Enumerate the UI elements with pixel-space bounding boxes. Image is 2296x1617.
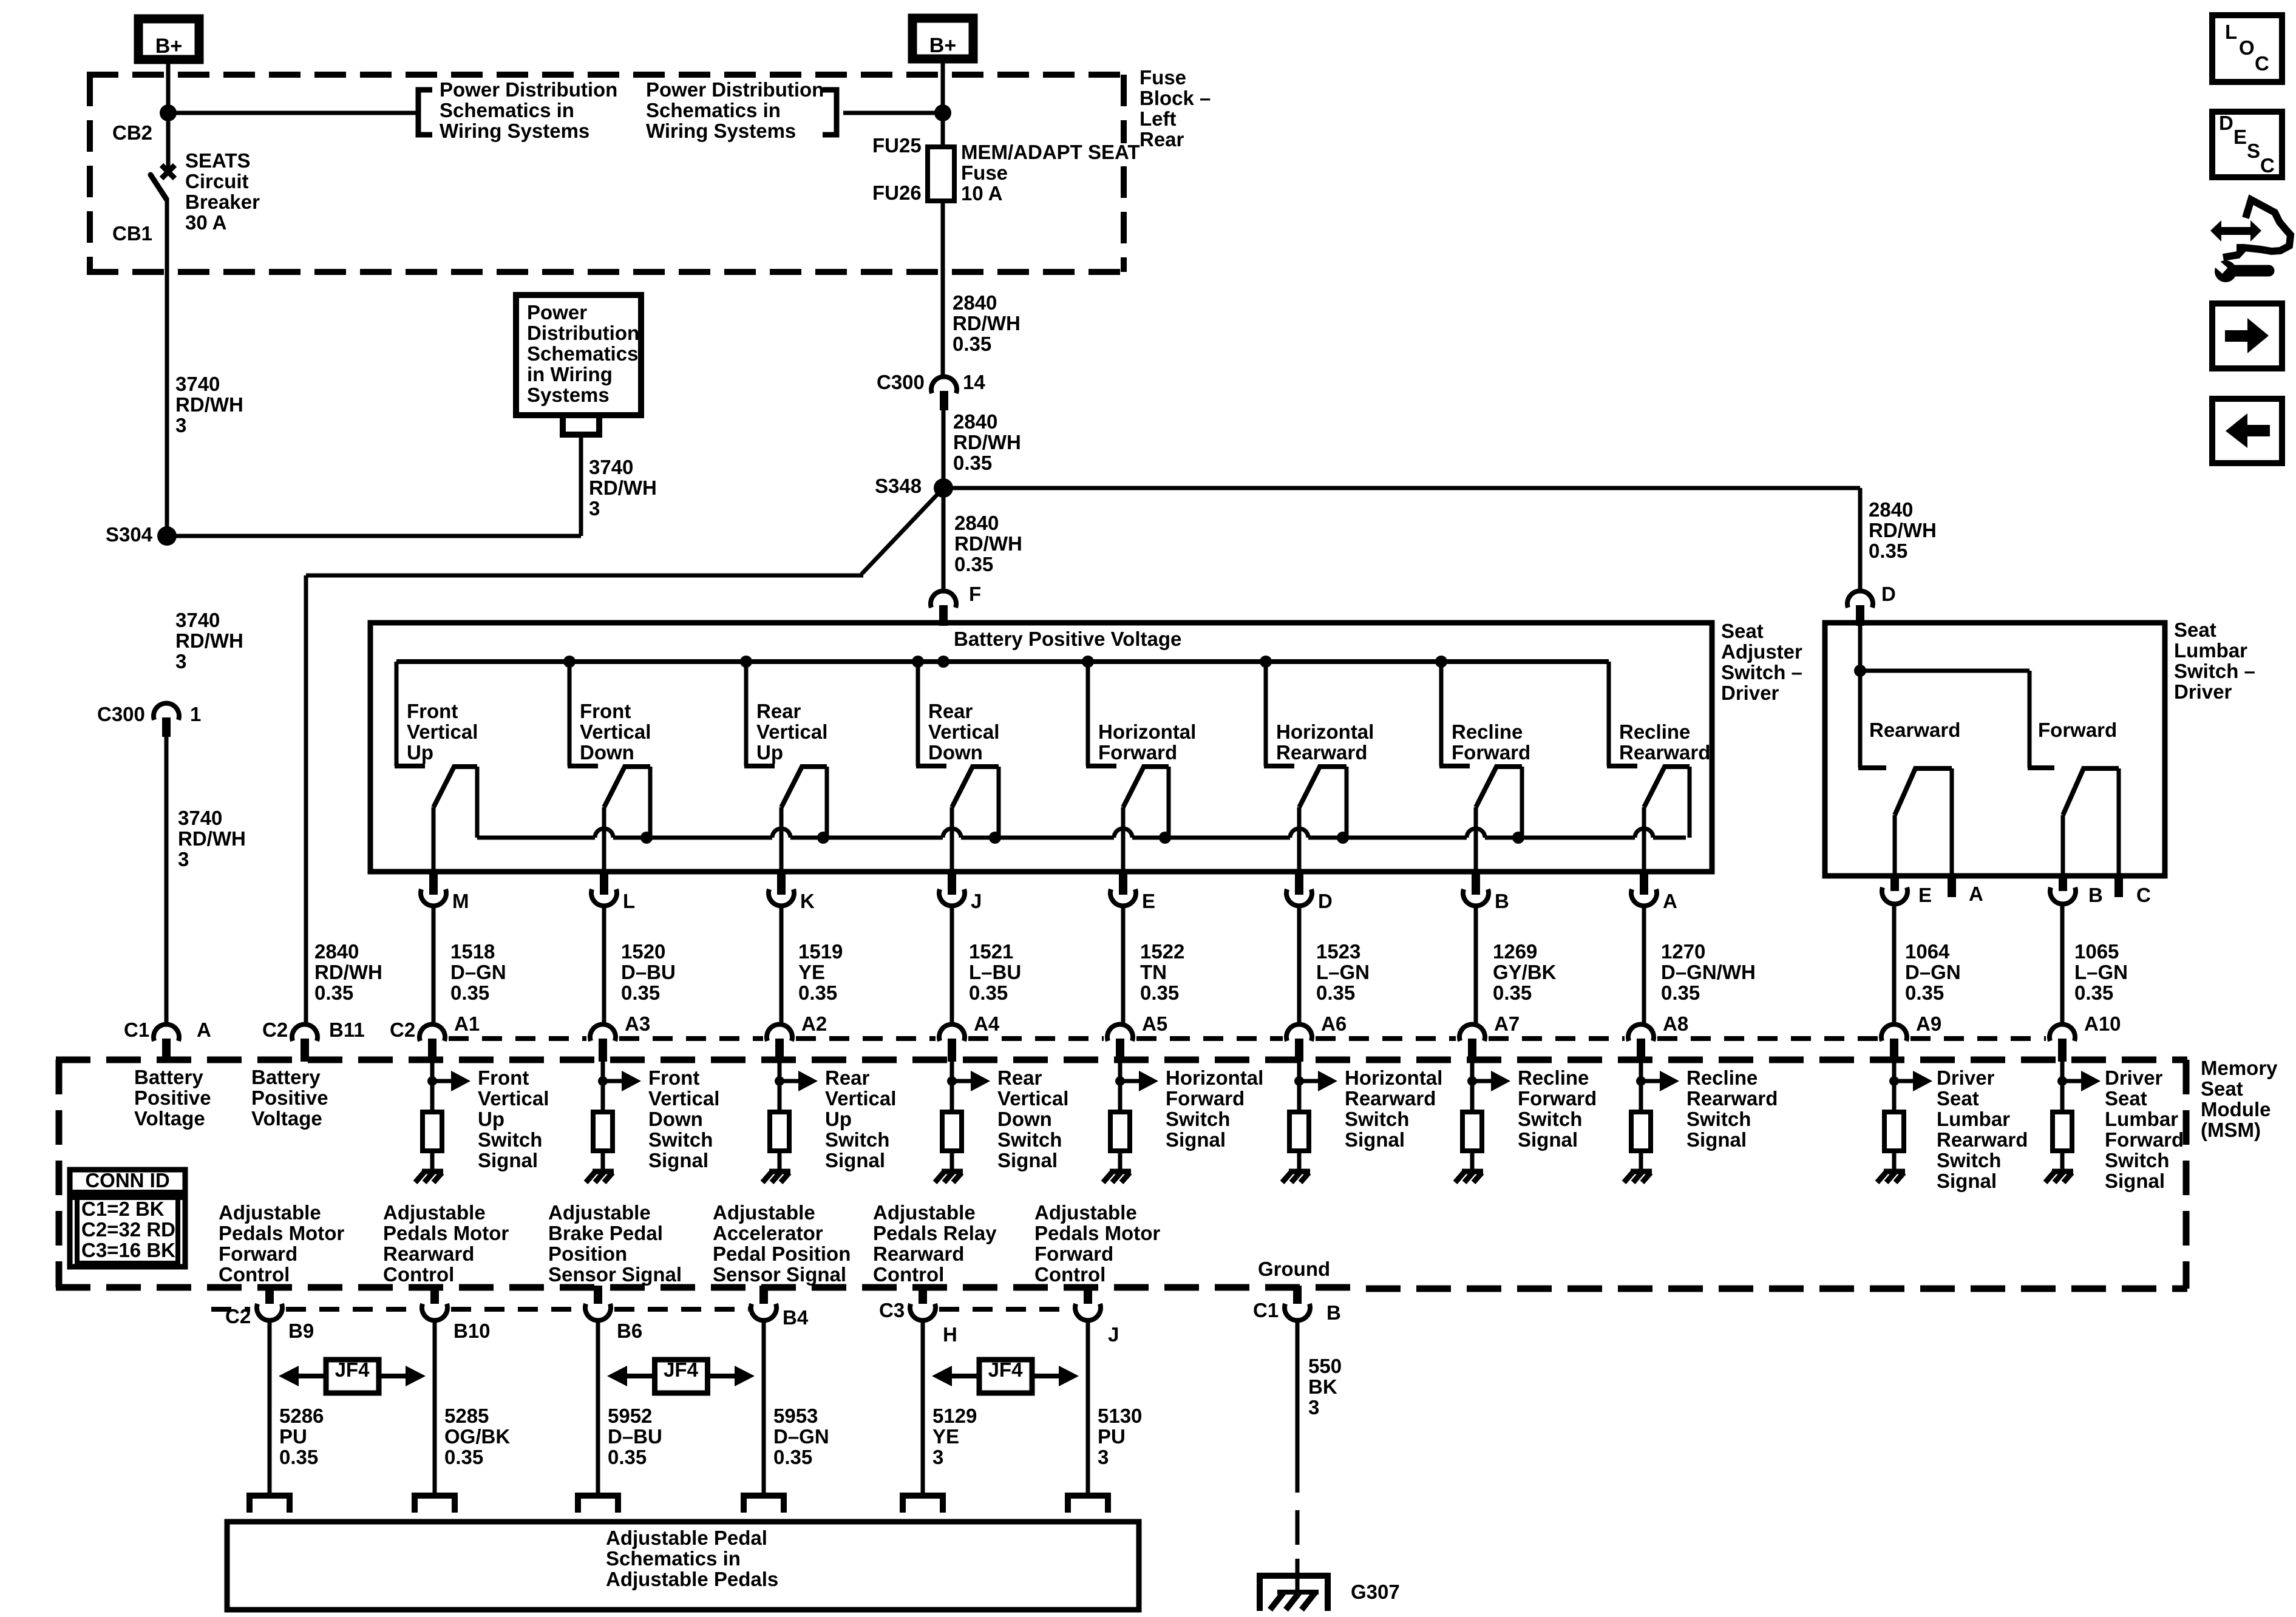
splice S348 [934,478,953,498]
svg-text:Rearward: Rearward [873,1242,964,1265]
svg-text:0.35: 0.35 [1905,981,1944,1004]
svg-text:Forward: Forward [2105,1128,2184,1151]
svg-text:0.35: 0.35 [1869,540,1907,562]
svg-text:Systems: Systems [527,384,610,406]
power distribution reference box terminal [563,415,599,435]
svg-text:Up: Up [478,1108,504,1130]
svg-text:0.35: 0.35 [608,1446,647,1468]
icon back arrow box [2212,399,2282,463]
in-line connector JF4 box [326,1360,379,1393]
svg-text:Adjuster: Adjuster [1721,640,1802,663]
resistor (pull) Recline Forward [1462,1112,1482,1151]
svg-text:Front: Front [580,700,631,722]
svg-text:A8: A8 [1663,1012,1688,1035]
svg-text:C300: C300 [97,703,145,725]
ground (internal) [1289,1169,1310,1175]
wire ground dashed section [1296,1510,1300,1545]
wire hop over output [1290,829,1308,838]
svg-text:Forward: Forward [1166,1087,1245,1110]
node signal junction Recline Rearward Switch Signal [1636,1076,1646,1086]
connector MSM pin A5 [1107,1025,1133,1041]
wire B+ to CB2 junction [166,64,171,113]
svg-text:L–GN: L–GN [2074,961,2128,983]
svg-text:Voltage: Voltage [134,1107,205,1130]
wire S348 diagonal to B11 branch [861,488,943,574]
svg-text:Memory: Memory [2201,1057,2278,1079]
svg-text:Signal: Signal [478,1149,538,1171]
svg-text:5953: 5953 [773,1405,818,1427]
svg-text:RD/WH: RD/WH [953,431,1021,453]
svg-text:B6: B6 [617,1320,642,1342]
svg-text:Battery: Battery [134,1066,203,1088]
svg-text:Forward: Forward [219,1242,297,1265]
svg-text:Power Distribution: Power Distribution [646,78,824,101]
node power distribution branch 2 junction [934,104,951,121]
svg-text:Seat: Seat [2174,619,2216,641]
switch Front Vertical Up - lever [433,767,477,807]
svg-text:1270: 1270 [1661,940,1705,963]
terminal at adjustable pedal schematics (H) [903,1496,943,1513]
svg-text:Seat: Seat [2105,1087,2147,1110]
svg-text:Position: Position [548,1242,627,1265]
svg-text:B+: B+ [929,34,956,57]
switch Horizontal Forward - contact leg [1167,767,1171,838]
wire switch Rear Vertical Down output [950,807,954,870]
svg-text:A7: A7 [1494,1012,1520,1035]
svg-text:Horizontal: Horizontal [1345,1066,1442,1089]
svg-text:0.35: 0.35 [450,981,489,1004]
svg-text:C2: C2 [390,1019,415,1041]
connector MSM pin A4 [939,1025,965,1041]
wire CB1 down to S304 [165,198,169,536]
svg-text:Rearward: Rearward [1619,741,1710,764]
svg-text:Pedals Relay: Pedals Relay [873,1222,997,1244]
svg-text:Rear: Rear [756,700,801,722]
wire MSM input Driver Seat [2060,1062,2065,1081]
svg-text:Vertical: Vertical [928,720,999,743]
svg-text:550: 550 [1308,1355,1342,1377]
svg-text:C2=32 RD: C2=32 RD [81,1218,175,1241]
connector MSM pin B6 [594,1286,602,1309]
wire resistor to ground [1118,1151,1123,1169]
svg-text:Switch: Switch [1518,1108,1582,1130]
resistor (pull) Horizontal Rearward [1289,1112,1309,1151]
svg-text:Pedals Motor: Pedals Motor [1034,1222,1160,1244]
node signal junction Recline Forward Switch Signal [1467,1076,1477,1086]
switch Lumbar Rearward - lever [1895,768,1952,815]
svg-text:B4: B4 [783,1306,809,1329]
ground (internal) [1462,1169,1483,1175]
svg-text:30 A: 30 A [185,211,226,234]
resistor (pull) Recline Rearward [1631,1112,1651,1151]
svg-text:Lumbar: Lumbar [1937,1108,2010,1130]
connector MSM pin B9 [265,1286,274,1309]
svg-text:Forward: Forward [1518,1087,1597,1110]
node bus tap K [740,656,752,668]
svg-text:0.35: 0.35 [953,333,991,355]
svg-text:Signal: Signal [1518,1128,1578,1151]
svg-text:C3=16 BK: C3=16 BK [81,1239,175,1261]
svg-text:1064: 1064 [1905,940,1950,963]
svg-text:Sensor Signal: Sensor Signal [548,1263,682,1286]
switch Recline Forward - lever [1476,767,1522,807]
wire C300-14 to S348 [942,409,946,488]
svg-text:Ground: Ground [1258,1258,1330,1280]
wire switch Front Vertical Up output [432,807,436,870]
svg-text:5952: 5952 [608,1405,652,1427]
wire hop over output [943,829,961,838]
svg-text:RD/WH: RD/WH [175,393,243,416]
svg-text:Switch: Switch [2105,1149,2169,1171]
svg-text:Control: Control [219,1263,290,1286]
svg-text:Recline: Recline [1686,1066,1758,1089]
svg-text:B11: B11 [329,1019,365,1041]
wire MSM input Horizontal Rearward [1297,1062,1302,1081]
ground (internal) [422,1169,443,1175]
svg-text:Driver: Driver [1937,1066,1995,1089]
svg-text:Vertical: Vertical [756,720,827,743]
ground (internal) [942,1169,963,1175]
svg-text:Vertical: Vertical [580,720,651,743]
svg-text:Wiring Systems: Wiring Systems [646,120,796,142]
svg-text:Control: Control [383,1263,454,1286]
wire pin B6 to adjustable pedals [596,1321,600,1493]
ground (internal) [593,1169,614,1175]
svg-text:Up: Up [407,741,433,764]
connector pin D [1295,872,1303,895]
wire resistor to ground [1892,1151,1897,1169]
connector C300 pin 14 [931,377,957,393]
svg-text:Down: Down [580,741,634,764]
svg-text:J: J [1108,1323,1119,1346]
wire ground pin B down [1296,1321,1300,1493]
svg-text:RD/WH: RD/WH [954,532,1022,555]
svg-text:0.35: 0.35 [444,1446,483,1468]
reference bracket 2 [823,90,837,135]
resistor (pull) Driver Seat [1884,1112,1904,1151]
wire B+2 down to fuse [941,62,945,147]
switch Lumbar Forward - lever [2063,768,2119,815]
JF4 arrow left [951,1374,979,1378]
switch Recline Forward - supply leg [1439,662,1444,766]
svg-text:A4: A4 [974,1012,1000,1035]
svg-text:1: 1 [190,703,201,725]
JF4 arrow left [627,1374,655,1378]
svg-text:3: 3 [932,1446,943,1468]
svg-text:Switch: Switch [648,1128,713,1151]
svg-text:B: B [2088,884,2103,906]
node signal junction Front Vertical Up Switch Signal [427,1076,437,1086]
svg-text:Driver: Driver [2174,680,2232,703]
switch Front Vertical Up - contact leg [475,767,480,838]
svg-text:C300: C300 [877,371,925,393]
svg-text:L–BU: L–BU [969,961,1021,983]
svg-text:Adjustable Pedals: Adjustable Pedals [606,1568,778,1590]
power symbol B+ (circuit breaker feed) [138,19,199,59]
svg-text:Up: Up [825,1108,852,1130]
wire fuse to C300 pin 14 [941,201,945,376]
svg-text:Switch: Switch [1345,1108,1409,1130]
connector pin B [1472,872,1480,895]
wire resistor to ground [950,1151,954,1169]
connector MSM pin B11 [292,1025,318,1041]
wire junction to resistor [1118,1081,1123,1112]
svg-text:Recline: Recline [1518,1066,1589,1089]
wire D into lumbar switch [1858,618,1863,671]
switch Horizontal Forward - lever [1123,767,1169,807]
svg-text:FU25: FU25 [872,134,922,157]
svg-text:Sensor Signal: Sensor Signal [713,1263,846,1286]
node signal junction Driver Seat Lumbar Forward Switch Signal [2057,1076,2067,1086]
wire hop over output [1114,829,1132,838]
svg-text:O: O [2239,36,2255,59]
svg-text:Switch –: Switch – [1721,661,1802,683]
svg-text:1518: 1518 [450,940,495,963]
connector pin B (lumbar) [2059,876,2067,891]
wire junction to resistor [950,1081,954,1112]
svg-text:0.35: 0.35 [954,553,993,575]
wire switch Horizontal Rearward output [1297,807,1302,870]
svg-text:S348: S348 [875,475,922,497]
connector MSM pin A10 [2050,1025,2075,1041]
svg-text:1520: 1520 [621,940,665,963]
svg-text:Circuit: Circuit [185,170,249,192]
svg-text:Signal: Signal [1345,1128,1405,1151]
svg-text:C3: C3 [879,1299,905,1321]
wire switch Horizontal Forward output [1121,807,1126,870]
svg-text:0.35: 0.35 [773,1446,812,1468]
wire pin D to MSM [1297,906,1302,1026]
svg-text:M: M [452,890,469,912]
switch Rear Vertical Down - supply leg [916,662,920,766]
svg-text:A: A [197,1019,211,1041]
resistor (pull) Rear Vertical [942,1112,962,1151]
svg-text:Schematics in: Schematics in [440,99,574,121]
svg-text:E: E [1918,884,1932,906]
svg-text:Rearward: Rearward [383,1242,474,1265]
svg-text:Rear: Rear [997,1066,1042,1089]
wire switch Recline Forward output [1474,807,1478,870]
ground G307 [1260,1576,1328,1611]
svg-text:B: B [1495,890,1509,912]
connector C300 pin 1 [154,703,179,720]
svg-text:Adjustable Pedal: Adjustable Pedal [606,1527,767,1549]
svg-text:Rearward: Rearward [1869,719,1960,741]
svg-text:Adjustable: Adjustable [713,1201,815,1224]
adjustable pedal schematics box [227,1522,1139,1610]
svg-text:S: S [2247,140,2260,162]
switch common return line [477,836,595,840]
svg-text:Up: Up [756,741,783,764]
svg-text:Rearward: Rearward [1345,1087,1436,1110]
svg-text:Horizontal: Horizontal [1166,1066,1263,1089]
node common line junction [1512,832,1524,844]
wire hop over output [1467,829,1485,838]
terminal at adjustable pedal schematics (B10) [415,1496,455,1513]
wire pin B9 to adjustable pedals [268,1321,272,1493]
wire resistor to ground [2060,1151,2065,1169]
svg-text:A3: A3 [625,1012,650,1035]
svg-text:Voltage: Voltage [251,1107,322,1130]
svg-text:(MSM): (MSM) [2201,1119,2261,1141]
svg-text:A6: A6 [1321,1012,1347,1035]
connector MSM pin A [154,1025,179,1041]
svg-text:Switch –: Switch – [2174,660,2255,682]
svg-text:Control: Control [873,1263,944,1286]
svg-text:PU: PU [1098,1425,1126,1448]
svg-text:1522: 1522 [1140,940,1184,963]
wire pin B to MSM [1474,906,1478,1026]
svg-text:0.35: 0.35 [279,1446,318,1468]
node bus tap F wire [937,656,949,668]
wire MSM input Front Vertical [430,1062,435,1081]
svg-text:D–GN: D–GN [773,1425,829,1448]
svg-text:D: D [2219,112,2233,134]
svg-text:Adjustable: Adjustable [219,1201,321,1224]
svg-text:Down: Down [928,741,983,764]
svg-text:Signal: Signal [825,1149,885,1171]
svg-text:1523: 1523 [1316,940,1360,963]
wire pin B4 to adjustable pedals [762,1321,766,1493]
svg-text:1269: 1269 [1493,940,1537,963]
svg-text:A: A [1663,890,1677,912]
JF4 arrow right [1032,1374,1059,1378]
reference bracket 1 [418,90,432,135]
svg-text:0.35: 0.35 [621,981,660,1004]
node bus tap B [1435,656,1447,668]
wire switch Front Vertical Down output [602,807,606,870]
svg-text:Control: Control [1034,1263,1106,1286]
terminal at adjustable pedal schematics (B9) [250,1496,290,1513]
battery positive voltage bus [396,659,1609,664]
svg-text:D–BU: D–BU [621,961,676,983]
splice S304 [157,526,177,546]
svg-text:Front: Front [407,700,458,722]
wire switch Recline Rearward output [1642,807,1646,870]
wire junction to resistor [601,1081,605,1112]
svg-text:D–BU: D–BU [608,1425,662,1448]
wire S348 down to connector F [942,488,946,590]
connector MSM pin B4 [759,1286,768,1309]
connector pin E (lumbar) [1890,876,1899,891]
terminal at adjustable pedal schematics (J) [1068,1496,1108,1513]
svg-text:CB1: CB1 [112,222,152,245]
svg-text:3: 3 [178,848,189,870]
wire resistor to ground [601,1151,605,1169]
svg-text:PU: PU [279,1425,307,1448]
svg-text:Power Distribution: Power Distribution [440,78,617,101]
switch Lumbar Rearward - supply leg [1858,671,1863,768]
node bus tap D [1260,656,1272,668]
signal arrow Horizontal Rearward Switch Signal [1299,1079,1320,1083]
connector MSM pin A9 [1881,1025,1907,1041]
svg-text:GY/BK: GY/BK [1493,961,1557,983]
node signal junction Horizontal Rearward Switch Signal [1294,1076,1304,1086]
svg-text:D: D [1318,890,1333,912]
node common line junction [1159,832,1171,844]
JF4 arrow left [298,1374,326,1378]
svg-text:D–GN: D–GN [1905,961,1961,983]
svg-text:C: C [2255,52,2269,75]
wire resistor to ground [1470,1151,1475,1169]
CONN ID table box [70,1170,185,1267]
svg-text:Switch: Switch [997,1128,1062,1151]
svg-text:J: J [971,890,982,912]
terminal at adjustable pedal schematics (B4) [744,1496,784,1513]
svg-text:3740: 3740 [589,456,633,478]
svg-text:CONN ID: CONN ID [85,1169,169,1192]
wire pin L to MSM [602,906,606,1026]
svg-text:Signal: Signal [1686,1128,1747,1151]
ground (internal) [1110,1169,1131,1175]
svg-text:L: L [2225,21,2237,43]
in-line connector JF4 box [655,1360,708,1393]
svg-text:A9: A9 [1916,1012,1941,1035]
svg-text:Brake Pedal: Brake Pedal [548,1222,663,1244]
svg-text:Forward: Forward [1034,1242,1113,1265]
wire junction to Power Distribution reference 2 [843,111,943,115]
wire junction to resistor [430,1081,435,1112]
svg-text:Seat: Seat [2201,1077,2243,1100]
connector MSM pin J [1084,1286,1092,1309]
svg-text:FU26: FU26 [872,181,922,204]
svg-text:Forward: Forward [2038,719,2117,741]
svg-text:Down: Down [648,1108,703,1130]
node signal junction Rear Vertical Down Switch Signal [947,1076,957,1086]
svg-text:0.35: 0.35 [1140,981,1179,1004]
connector C2 dashed pin row (MSM top) [449,1036,586,1041]
switch Horizontal Rearward - contact leg [1345,767,1349,838]
signal arrow Recline Rearward Switch Signal [1641,1079,1662,1083]
svg-text:Front: Front [648,1066,699,1089]
resistor (pull) Front Vertical [593,1112,613,1151]
node bus tap L [563,656,576,668]
svg-text:B10: B10 [453,1320,491,1342]
svg-text:A1: A1 [454,1012,480,1035]
svg-text:Signal: Signal [2105,1170,2165,1192]
svg-text:5129: 5129 [932,1405,977,1427]
svg-text:H: H [943,1323,957,1346]
switch Recline Rearward - lever [1644,767,1690,807]
svg-text:1521: 1521 [969,940,1013,963]
connector MSM pin B [1293,1286,1302,1309]
wire hop over output [595,829,613,838]
svg-text:JF4: JF4 [664,1358,699,1381]
ground (internal) [1631,1169,1652,1175]
connector pin A [1640,872,1648,895]
svg-text:Battery: Battery [251,1066,321,1088]
svg-text:Switch: Switch [1686,1108,1751,1130]
svg-text:Rear: Rear [825,1066,870,1089]
svg-text:G307: G307 [1351,1581,1400,1603]
switch Rear Vertical Up - contact leg [825,767,829,838]
connector C3 dashed pin row [939,1307,1073,1312]
node bus tap J [912,656,924,668]
svg-text:Signal: Signal [1166,1128,1226,1151]
svg-text:Vertical: Vertical [478,1087,549,1110]
svg-text:RD/WH: RD/WH [589,476,657,499]
node signal junction Driver Seat Lumbar Rearward Switch Signal [1889,1076,1899,1086]
wire S348 to seat lumbar switch (right branch) [943,486,1860,490]
seat adjuster switch box [370,623,1712,872]
node lumbar supply junction [1854,665,1866,677]
svg-text:C2: C2 [225,1305,251,1327]
svg-text:3: 3 [175,650,186,673]
circuit breaker CB1/CB2 SEATS 30 A [161,165,175,178]
signal arrow Rear Vertical Down Switch Signal [952,1079,973,1083]
svg-text:2840: 2840 [314,940,359,963]
svg-text:OG/BK: OG/BK [444,1425,510,1448]
